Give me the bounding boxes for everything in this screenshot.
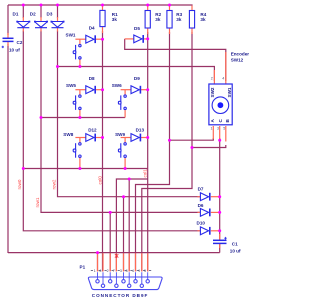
resistor R1 <box>100 10 105 26</box>
wire D5 loop to encoder <box>125 39 226 81</box>
resistor R3 <box>167 11 172 29</box>
svg-text:5: 5 <box>223 127 225 131</box>
wire row2 drop to DB9 <box>123 197 125 272</box>
svg-text:5: 5 <box>144 269 146 273</box>
pin 2 <box>109 280 112 283</box>
wire SW1 top link <box>75 38 85 40</box>
wire row3 bus <box>23 168 147 170</box>
pin 8 <box>128 284 131 287</box>
svg-text:2: 2 <box>107 269 109 273</box>
wire SW8 bottom stub <box>79 158 81 169</box>
wire stub D1 <box>22 17 24 21</box>
wire row2 bus <box>41 117 125 119</box>
node D12 cathode col0 <box>101 136 104 139</box>
wire SW6 bottom stub <box>124 110 126 118</box>
wire D10 cathode stub <box>211 230 220 232</box>
svg-text:col0: col0 <box>98 176 103 185</box>
wire SW5 bottom stub <box>79 110 81 118</box>
diode D4 <box>86 35 95 43</box>
pin 1 <box>96 280 99 283</box>
wire SW5 top link <box>75 89 85 91</box>
wire col1 R2 vertical <box>147 32 149 272</box>
node row1 drop <box>109 211 112 214</box>
resistor R4 <box>189 11 194 29</box>
wire encoder pin B stub <box>225 126 227 142</box>
svg-text:row2: row2 <box>52 179 57 189</box>
wire stub C2 <box>7 33 9 38</box>
wire left bus lower <box>7 44 9 253</box>
diode D13 <box>131 134 140 142</box>
node row2 drop <box>122 195 125 198</box>
node SW5 bottom <box>78 116 81 119</box>
wire D10 anode stub <box>198 230 201 232</box>
svg-text:SW1: SW1 <box>66 32 76 37</box>
wire SW1 D4 link <box>96 38 103 40</box>
svg-text:4: 4 <box>222 77 224 81</box>
wire encoder B line <box>192 145 226 148</box>
svg-text:3: 3 <box>120 269 122 273</box>
switch SW1 <box>73 44 81 59</box>
wire row1 drop to DB9 <box>109 212 111 271</box>
wire row2 vertical lower <box>58 31 201 197</box>
svg-text:SW6: SW6 <box>112 83 122 88</box>
wire SW6 top link <box>121 89 131 91</box>
switch SW5 <box>73 95 81 110</box>
switch SW9 <box>118 143 126 158</box>
wire row1 vertical lower <box>41 31 200 213</box>
wire encoder pin C stub <box>219 126 221 140</box>
node top bus D3 <box>56 4 59 7</box>
node D13 cathode col1 <box>146 136 149 139</box>
capacitor C2 <box>2 38 14 48</box>
wire D5 anode stub <box>125 38 134 40</box>
svg-text:D1: D1 <box>13 11 19 16</box>
svg-text:row1: row1 <box>35 197 40 207</box>
diode D1 <box>16 21 30 28</box>
node row1 bus start <box>56 65 59 68</box>
node A line col2 <box>168 139 171 142</box>
wire D6 cathode stub <box>211 211 220 213</box>
wire encoder A line <box>170 138 214 140</box>
wire SW5 D8 link <box>96 89 103 91</box>
node top bus R1 <box>101 4 104 7</box>
pin 9 <box>140 284 143 287</box>
svg-text:D5: D5 <box>134 26 140 31</box>
wire encoder right pin stub <box>225 52 227 84</box>
svg-text:D10: D10 <box>197 221 206 226</box>
svg-text:D3: D3 <box>47 11 53 16</box>
switch SW6 <box>118 95 126 110</box>
node D8 cathode col0 <box>101 88 104 91</box>
svg-text:SW8: SW8 <box>63 132 73 137</box>
svg-text:col1: col1 <box>143 169 148 178</box>
node ground pin1 <box>96 251 99 254</box>
wire encoder pin A stub <box>212 126 214 139</box>
svg-text:D8: D8 <box>89 76 95 81</box>
svg-text:10 uf: 10 uf <box>9 48 20 53</box>
wire left bus <box>7 5 9 35</box>
diode D8 <box>86 86 95 94</box>
node D7 cathode C bus <box>218 195 221 198</box>
svg-text:C2: C2 <box>17 40 23 45</box>
svg-text:10 uf: 10 uf <box>230 248 241 253</box>
wire SW6 D9 link <box>141 89 148 91</box>
pin 6 <box>101 284 104 287</box>
node D5 cathode col1 <box>146 37 149 40</box>
capacitor C1 <box>213 237 227 244</box>
svg-text:2: 2 <box>211 77 213 81</box>
wire D7 anode stub <box>198 196 201 198</box>
diode D5 <box>134 35 143 43</box>
node top bus R3 <box>168 4 171 7</box>
wire stub R1 <box>102 6 104 11</box>
svg-text:4: 4 <box>132 269 134 273</box>
svg-text:1: 1 <box>94 269 96 273</box>
svg-text:9: 9 <box>138 269 140 273</box>
wire SW9 top link <box>121 137 131 139</box>
wire row0 vertical D1 <box>22 5 24 18</box>
svg-text:row0: row0 <box>17 179 22 189</box>
wire SW8 top link <box>75 137 85 139</box>
svg-text:3k: 3k <box>112 17 118 22</box>
svg-text:Encoder: Encoder <box>231 51 250 56</box>
diode D3 <box>51 21 65 28</box>
wire C1 top stub <box>219 234 221 240</box>
svg-text:3: 3 <box>217 127 219 131</box>
wire encoder C vertical <box>219 138 221 240</box>
wire ground bus bottom <box>8 252 220 254</box>
switch SW8 <box>73 143 81 158</box>
encoder SW12 <box>209 84 232 125</box>
wire col1 branch drop <box>128 179 130 272</box>
wire SW1 bottom stub <box>79 59 81 66</box>
node SW9 bottom <box>124 167 127 170</box>
wire C1 bottom stub <box>219 243 221 248</box>
svg-text:D12: D12 <box>88 128 97 133</box>
pin 5 <box>146 280 149 283</box>
no-connect X pin7 <box>115 254 118 257</box>
wire pin1 drop <box>97 253 99 272</box>
wire stub D2 <box>40 17 42 21</box>
pin 3 <box>122 280 125 283</box>
svg-text:D2: D2 <box>30 11 36 16</box>
wire stub D3 <box>57 17 59 21</box>
node C pin junction <box>218 139 221 142</box>
node SW8 bottom <box>78 167 81 170</box>
wire top bus <box>8 4 193 6</box>
svg-text:1: 1 <box>211 127 213 131</box>
svg-text:C1: C1 <box>232 241 238 246</box>
svg-text:D9: D9 <box>134 76 140 81</box>
wire DB9 pin stubs red <box>97 253 99 271</box>
diode D6 <box>200 209 209 217</box>
node row2 bus start <box>40 116 43 119</box>
node SW1 bottom <box>78 65 81 68</box>
wire row1 bus to encoder <box>58 67 215 82</box>
svg-text:CONNECTOR DB9F: CONNECTOR DB9F <box>92 293 148 298</box>
pin 7 <box>115 284 118 287</box>
wire col1 horizontal to DB9 <box>116 179 147 272</box>
node col1 branch <box>128 178 131 181</box>
node D10 cathode C bus <box>218 229 221 232</box>
svg-text:SW9: SW9 <box>115 132 125 137</box>
wire stub R2 <box>147 6 149 11</box>
diode D12 <box>86 134 95 142</box>
diode D2 <box>34 21 48 28</box>
wire SW9 D13 link <box>141 137 148 139</box>
wire SW9 bottom stub <box>124 158 126 169</box>
svg-text:7: 7 <box>113 269 115 273</box>
DB9 pin numbers <box>91 269 151 273</box>
wire C1 to ground <box>219 244 221 253</box>
svg-text:3k: 3k <box>200 17 206 22</box>
svg-text:P1: P1 <box>80 265 86 270</box>
wire D5 cathode stub <box>144 38 148 40</box>
wire row0 vertical lower <box>23 31 200 231</box>
wire stub R3 <box>169 6 171 11</box>
node D9 cathode col1 <box>146 88 149 91</box>
svg-text:3k: 3k <box>176 17 182 22</box>
svg-text:D4: D4 <box>89 26 95 31</box>
wire col0 R1 vertical <box>102 31 104 272</box>
svg-text:SW12: SW12 <box>231 57 244 62</box>
diode D9 <box>131 86 140 94</box>
diode D7 <box>200 193 209 201</box>
wire row1 vertical D2 <box>40 5 42 18</box>
svg-text:6: 6 <box>99 269 101 273</box>
node D4 cathode col0 <box>101 38 104 41</box>
svg-text:SW2: SW2 <box>210 87 215 97</box>
resistor R2 <box>145 11 150 29</box>
svg-text:3k: 3k <box>155 17 161 22</box>
wire row2 vertical D3 <box>57 5 59 18</box>
wire D7 cathode stub <box>211 196 220 198</box>
wire stub R4 <box>191 6 193 11</box>
wire D6 anode stub <box>198 211 201 213</box>
svg-text:SW5: SW5 <box>66 83 76 88</box>
wire col2 R3 vertical <box>136 32 170 272</box>
svg-text:SW1: SW1 <box>227 87 232 97</box>
svg-text:D13: D13 <box>136 128 145 133</box>
node top bus R2 <box>146 4 149 7</box>
svg-text:8: 8 <box>126 269 128 273</box>
connector P1 DB9F <box>88 272 162 289</box>
node row3 bus start <box>22 167 25 170</box>
wire encoder left pin stub <box>213 70 215 84</box>
wire SW8 D12 link <box>96 137 103 139</box>
svg-text:D6: D6 <box>198 203 204 208</box>
node top bus D1 <box>22 4 25 7</box>
diode D10 <box>200 227 209 235</box>
pin 4 <box>134 280 137 283</box>
svg-text:D7: D7 <box>198 187 204 192</box>
node top bus D2 <box>40 4 43 7</box>
wire col3 R4 vertical <box>142 32 192 272</box>
node B line col3 <box>191 146 194 149</box>
node D6 cathode C bus <box>218 211 221 214</box>
